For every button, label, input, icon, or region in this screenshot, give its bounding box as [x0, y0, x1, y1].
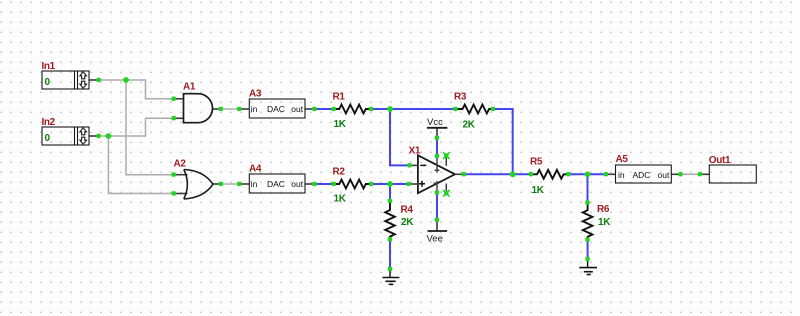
svg-text:0: 0 [45, 77, 51, 88]
resistor R2 [334, 180, 371, 189]
pin markers A2 inputs and output [172, 172, 224, 195]
svg-text:In2: In2 [42, 117, 56, 128]
svg-text:R1: R1 [333, 92, 346, 103]
wire R4 bottom to ground [389, 239, 391, 269]
svg-text:1K: 1K [532, 185, 545, 196]
svg-text:R5: R5 [530, 157, 543, 168]
junction node R1/R3/inverting [387, 106, 393, 112]
svg-text:DAC: DAC [267, 179, 285, 189]
svg-text:R6: R6 [597, 204, 610, 215]
junction node In1 branch [123, 77, 129, 83]
wire In2 branch down to A2 lower input [108, 136, 173, 194]
svg-text:1K: 1K [334, 194, 347, 205]
svg-text:In1: In1 [42, 61, 56, 72]
junction node R2/R4/non-inverting [387, 181, 393, 187]
ground below R6 [579, 259, 597, 275]
wire In1 branch down to A2 upper input [126, 80, 174, 175]
wire junction down to R6 [587, 174, 589, 202]
resistor R5 [531, 170, 568, 179]
wire In1 output to junction [99, 80, 174, 99]
svg-text:in: in [251, 104, 258, 114]
input widget In1 [42, 71, 89, 89]
wire R1 right to R3 left through junction [371, 108, 455, 110]
svg-text:in: in [618, 170, 625, 180]
resistor R1 [334, 105, 371, 114]
resistor R4 (vertical) [385, 201, 395, 240]
ground below R4 [383, 269, 400, 284]
pin marker Out1 input [698, 172, 702, 176]
pin markers R3 [453, 107, 495, 111]
pin markers R5 [529, 172, 571, 176]
wire A2 output to A4 in [221, 183, 239, 185]
OR gate A2 [184, 170, 213, 199]
pin marker In2 output [96, 134, 100, 138]
svg-text:A5: A5 [616, 154, 629, 165]
pin markers X1 inputs and output [406, 163, 466, 186]
svg-text:A2: A2 [174, 159, 187, 170]
svg-text:ADC: ADC [633, 170, 651, 180]
op-amp X1 non-inverting input marker [419, 181, 425, 187]
svg-text:2K: 2K [463, 120, 476, 131]
wire R6 bottom to ground [587, 240, 589, 259]
svg-text:out: out [291, 179, 303, 189]
output widget Out1 [709, 165, 756, 183]
wire A4 out to R2 (blue) [315, 183, 334, 185]
input widget In2 [42, 127, 89, 145]
svg-text:1K: 1K [334, 119, 347, 130]
svg-text:out: out [658, 170, 670, 180]
wire R3 right down to output net [493, 109, 513, 174]
op-amp X1 input pin stubs [409, 165, 464, 184]
ADC block A5 [616, 165, 672, 183]
op-amp X1 offset pin top (nc) [445, 158, 447, 166]
wire R2 right to op-amp non-inverting input [371, 183, 409, 185]
pin stub In1 [89, 79, 99, 81]
svg-text:Vcc: Vcc [427, 117, 443, 128]
wire R5 right to A5 in [568, 173, 606, 175]
op-amp X1 V- pin [434, 181, 438, 193]
junction node R5/R6/A5 [585, 171, 591, 177]
pin stub In2 [89, 135, 99, 137]
svg-text:A4: A4 [249, 164, 262, 175]
pin stubs A5 [606, 173, 681, 175]
pin stub Out1 [700, 173, 709, 175]
pin stubs A3 [239, 108, 314, 110]
pin stubs A1 [174, 99, 221, 119]
pin markers R4 and ground connection [388, 199, 392, 271]
pin markers R2 [332, 182, 374, 186]
svg-text:0: 0 [45, 133, 51, 144]
pin markers A1 inputs and output [172, 97, 224, 121]
junction node output/R3 [510, 171, 516, 177]
pin stubs A4 [239, 183, 314, 185]
svg-text:A1: A1 [183, 82, 196, 93]
pin markers R6 and ground connection [585, 200, 590, 261]
DAC block A3 [249, 99, 305, 118]
junction node In2 branch [106, 133, 112, 139]
pin markers A3 in and out [237, 107, 317, 111]
svg-text:X1: X1 [409, 146, 421, 157]
svg-text:Vee: Vee [427, 234, 443, 245]
no-connect X marker top [443, 152, 450, 159]
pin markers R1 [332, 107, 374, 111]
pin markers A5 in and out [604, 172, 683, 176]
op-amp X1 [418, 155, 455, 193]
op-amp X1 inverting input marker [420, 164, 426, 166]
svg-text:R2: R2 [333, 167, 346, 178]
svg-text:2K: 2K [401, 217, 414, 228]
svg-text:DAC: DAC [267, 104, 285, 114]
wire A3 out to R1 (blue) [315, 108, 334, 110]
pin markers A4 in and out [237, 182, 317, 186]
op-amp X1 V+ pin [435, 156, 440, 173]
op-amp X1 offset pin bottom (nc) [445, 184, 447, 192]
svg-text:R3: R3 [454, 92, 467, 103]
wire A1 output to A3 in [221, 108, 239, 110]
power symbol Vcc [427, 128, 448, 138]
svg-text:out: out [291, 104, 303, 114]
wire junction down to R4 [389, 184, 391, 201]
wire A5 out to Out1 [681, 173, 701, 175]
wire In2 output to A1 lower input [99, 118, 174, 136]
pin stubs A2 [174, 175, 221, 194]
svg-text:Out1: Out1 [709, 155, 731, 166]
svg-text:A3: A3 [249, 89, 262, 100]
svg-text:R4: R4 [401, 205, 414, 216]
power symbol Vee [428, 220, 448, 231]
no-connect X marker bottom [443, 190, 450, 197]
wire op-amp V- to Vee [436, 193, 438, 220]
wire junction down to op-amp inverting input [390, 109, 410, 165]
pin markers X1 supply pins [435, 136, 439, 222]
resistor R3 [456, 105, 493, 114]
resistor R6 (vertical) [583, 203, 593, 240]
AND gate A1 [184, 94, 213, 123]
svg-text:in: in [251, 179, 258, 189]
wire op-amp output to R5 left [464, 173, 531, 175]
svg-text:1K: 1K [598, 217, 611, 228]
DAC block A4 [249, 174, 305, 193]
wire Vcc to op-amp V+ [436, 138, 438, 156]
pin marker In1 output [96, 78, 100, 82]
